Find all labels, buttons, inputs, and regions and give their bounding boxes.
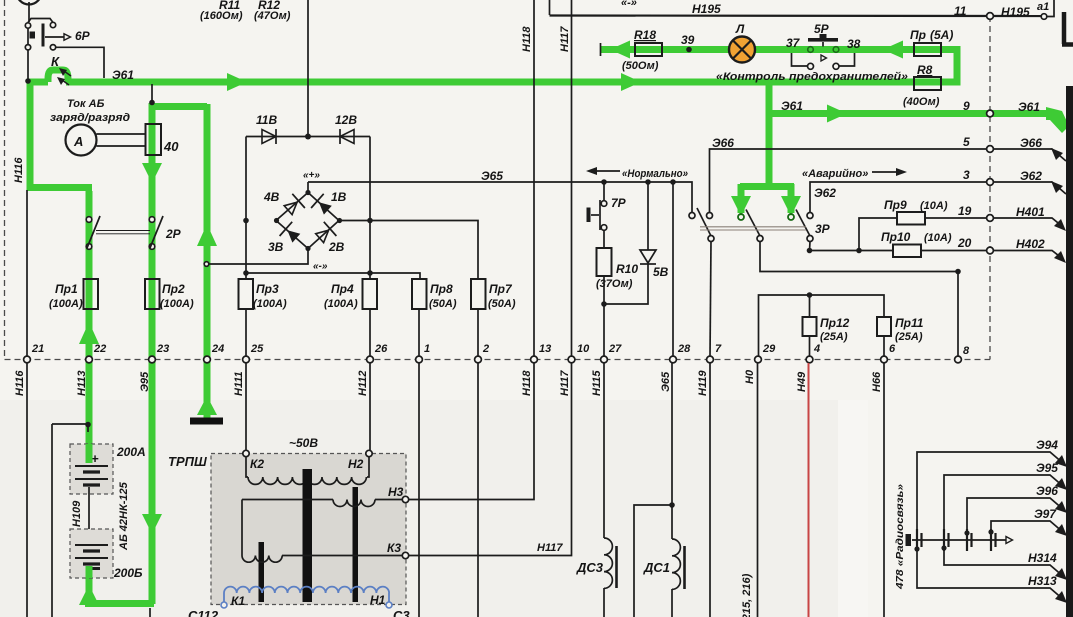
green arrow on Э61 at x=243 (227, 73, 247, 91)
svg-text:Ток АБ: Ток АБ (67, 98, 105, 110)
diode 3В (268, 222, 300, 254)
node 2 (475, 343, 490, 363)
transformer ТРПШ box (168, 436, 406, 605)
svg-text:39: 39 (681, 33, 695, 47)
svg-text:Пр9: Пр9 (884, 198, 907, 212)
wire Э62 (810, 182, 990, 213)
node 22 (76, 343, 106, 396)
svg-text:26: 26 (374, 343, 388, 355)
svg-text:Н3: Н3 (388, 485, 404, 499)
wire from instrument to 6Р (28, 2, 30, 22)
svg-text:28: 28 (677, 343, 691, 355)
green overlay inside battery top cell (86, 444, 93, 463)
wire Н118 vertical (533, 0, 535, 357)
transformer main core bar (303, 469, 313, 602)
connector pin pair 3 (967, 529, 972, 551)
green up arrow into battery minus (79, 585, 99, 605)
node 11 on Н195 (954, 4, 993, 19)
svg-text:R18: R18 (634, 28, 656, 42)
svg-text:«Контроль предохранителей»: «Контроль предохранителей» (716, 71, 908, 83)
svg-text:2: 2 (482, 343, 489, 355)
svg-text:2Р: 2Р (165, 227, 182, 241)
green down arrow to 3Р contact left (731, 196, 751, 216)
svg-text:200А: 200А (116, 445, 146, 459)
svg-text:Пр11: Пр11 (895, 316, 924, 330)
green arrow on Э61 branch at x=843 (827, 105, 847, 123)
svg-text:Н117: Н117 (559, 370, 571, 396)
diode 11В (256, 113, 277, 144)
terminal К3 (387, 541, 409, 559)
svg-text:R10: R10 (616, 262, 638, 276)
svg-text:7Р: 7Р (611, 196, 627, 210)
node 28 (660, 343, 691, 392)
svg-text:R8: R8 (917, 63, 933, 77)
wire Н66 node 6 down (883, 363, 885, 617)
svg-text:Пр10: Пр10 (881, 230, 911, 244)
connector pin pair 1 (917, 529, 922, 551)
shunt 40 (146, 124, 180, 155)
fuse Пр7 (471, 279, 516, 357)
svg-text:Э97: Э97 (1034, 507, 1057, 521)
right dashed panel border (989, 16, 991, 360)
fuse Пр9 (884, 198, 990, 225)
svg-text:Э95: Э95 (139, 371, 151, 392)
diode 4В (263, 190, 305, 215)
svg-text:9: 9 (963, 99, 970, 113)
svg-text:Э66: Э66 (1020, 136, 1042, 150)
terminal Н3 (388, 485, 409, 503)
svg-text:3: 3 (963, 168, 970, 182)
green arrow on Э61 at x=637 (621, 73, 641, 91)
node 27 (591, 343, 622, 396)
green down arrow on shunt wire (142, 163, 162, 183)
svg-text:23: 23 (156, 343, 169, 355)
svg-text:С3: С3 (393, 608, 410, 617)
fuse Пр11 (877, 316, 924, 357)
left dashed panel border (4, 0, 6, 360)
diode 2В (316, 222, 345, 254)
node 10 (559, 343, 590, 396)
svg-text:(100А): (100А) (160, 298, 194, 310)
svg-text:(100А): (100А) (324, 298, 358, 310)
wire Н117 node 10 down to К3 (409, 363, 572, 556)
adjacent frame corner top right (1062, 12, 1073, 45)
green arrow left near R18 (610, 41, 630, 59)
node 5 and wire Э66 right arrow (963, 135, 1066, 161)
svg-text:29: 29 (762, 343, 776, 355)
svg-text:Пр3: Пр3 (256, 282, 279, 296)
node 4 (796, 343, 820, 392)
svg-text:Н1: Н1 (370, 593, 386, 607)
svg-text:Пр12: Пр12 (820, 316, 850, 330)
green Э61 right edge hook (1046, 107, 1069, 133)
green down arrow on Э95 wire (142, 514, 162, 534)
wire Н116 below node 21 (26, 363, 28, 617)
node 24 (204, 343, 225, 363)
relay contact 6Р (25, 19, 90, 51)
svg-text:(37Ом): (37Ом) (596, 278, 633, 290)
svg-text:478 «Радиосвязь»: 478 «Радиосвязь» (895, 483, 906, 590)
svg-text:Э61: Э61 (781, 99, 803, 113)
fuse Пр2 (145, 279, 194, 310)
svg-text:(100А): (100А) (253, 298, 287, 310)
bus at у=220 right of bridge to Пр7 (339, 221, 478, 281)
svg-text:С112: С112 (188, 608, 219, 617)
svg-text:11: 11 (954, 4, 967, 18)
svg-text:1: 1 (424, 343, 430, 355)
lamp Л (729, 22, 755, 63)
svg-text:4В: 4В (263, 190, 280, 204)
wire node 2 down (477, 363, 479, 617)
node 29 (744, 343, 776, 384)
wire H116 from green corner down to node 21 (26, 190, 28, 357)
box corner top middle (549, 0, 551, 15)
wire Н115 node 27 down with choke ДС3 (576, 363, 617, 617)
svg-text:4: 4 (813, 343, 820, 355)
svg-text:3Р: 3Р (815, 222, 831, 236)
svg-text:Э65: Э65 (481, 169, 503, 183)
rectifier bridge arms (276, 193, 339, 249)
wire Н0 node 29 down (757, 363, 759, 617)
winding 3 К3 left leg (241, 500, 243, 556)
svg-text:Н2: Н2 (348, 457, 364, 471)
red wire Н49 node 4 down (808, 363, 810, 617)
switch 5Р (792, 22, 855, 69)
Аварийно label and arrow (802, 168, 907, 180)
green arrow left near fuse Пр(5А) (883, 41, 903, 59)
wire Э95 black continuation at bottom (149, 608, 151, 617)
svg-text:7: 7 (715, 343, 722, 355)
wire node 28 down with choke ДС1 (643, 363, 685, 617)
node 9 (963, 99, 1040, 117)
ground symbol (190, 418, 223, 425)
svg-text:1В: 1В (331, 190, 347, 204)
svg-text:Н115: Н115 (591, 370, 603, 396)
svg-text:и 215, 216): и 215, 216) (741, 573, 753, 617)
svg-text:Н195: Н195 (1001, 5, 1030, 19)
svg-text:Э95: Э95 (1036, 461, 1058, 475)
svg-text:Э62: Э62 (1020, 169, 1042, 183)
green up arrow on ground wire (197, 224, 217, 246)
svg-text:Н112: Н112 (357, 371, 369, 396)
svg-text:Н118: Н118 (521, 26, 533, 52)
svg-text:25: 25 (250, 343, 264, 355)
svg-text:Пр4: Пр4 (331, 282, 354, 296)
svg-text:27: 27 (608, 343, 622, 355)
diode 1В (311, 190, 347, 215)
svg-text:Н401: Н401 (1016, 205, 1045, 219)
wire from 3Р pole1 to node 7 (710, 242, 711, 358)
contactor К arrows (62, 71, 71, 85)
left branch wire to bridge (245, 137, 247, 281)
wire Н119 node 7 down (709, 363, 711, 617)
wire drop at х52 (51, 424, 53, 617)
svg-text:Н313: Н313 (1028, 574, 1057, 588)
svg-text:~50В: ~50В (289, 436, 318, 450)
node 25 (233, 343, 264, 396)
bridge top vertex wire to Э65 (307, 182, 309, 193)
fuse Пр4 (324, 279, 377, 357)
svg-text:«Нормально»: «Нормально» (622, 168, 688, 180)
svg-text:22: 22 (93, 343, 106, 355)
junction dot above bridge (305, 134, 311, 140)
svg-text:20: 20 (957, 236, 972, 250)
junction 6Р wire on Э61 (25, 78, 31, 84)
node 20 and wire Н402 right arrow (957, 236, 1066, 263)
svg-text:40: 40 (163, 139, 179, 154)
svg-text:Н119: Н119 (697, 370, 709, 396)
node 39 (686, 47, 692, 53)
svg-text:К: К (51, 54, 60, 69)
green down arrow to 3Р contact right (781, 196, 801, 216)
wire Н195 (550, 14, 1044, 17)
svg-text:Пр: Пр (910, 28, 926, 42)
winding 2 Н3 (242, 499, 333, 501)
svg-text:Н117: Н117 (537, 542, 563, 554)
wire Н109 between cells (88, 487, 90, 545)
node 1 (416, 343, 431, 363)
svg-text:Э61: Э61 (1018, 100, 1040, 114)
connector row dashed line (5, 359, 991, 361)
node 19 and wire Н401 right arrow (958, 204, 1066, 231)
svg-text:(10А): (10А) (920, 200, 948, 212)
svg-text:19: 19 (958, 204, 972, 218)
svg-text:«-»: «-» (621, 0, 637, 9)
svg-text:а1: а1 (1037, 1, 1049, 13)
terminal К2 (243, 450, 265, 471)
wire Э97 (988, 507, 1067, 536)
svg-text:Н195: Н195 (692, 2, 721, 16)
wire from 6Р right contact to Э61 (55, 47, 104, 78)
svg-text:Н49: Н49 (796, 371, 808, 392)
svg-text:200Б: 200Б (113, 566, 143, 580)
wire Э66 (710, 136, 991, 213)
wire from Э65 down to node 28 (672, 182, 674, 357)
svg-text:заряд/разряд: заряд/разряд (50, 112, 130, 124)
fuse Пр1 (49, 279, 98, 310)
node 13 (521, 343, 551, 396)
svg-text:Н111: Н111 (233, 371, 245, 396)
svg-text:Пр7: Пр7 (489, 282, 513, 296)
connector а1 on Н195 (1001, 0, 1054, 19)
svg-text:Н314: Н314 (1028, 551, 1057, 565)
node 26 (357, 343, 388, 396)
svg-text:(25А): (25А) (895, 331, 923, 343)
svg-text:ТРПШ: ТРПШ (168, 454, 207, 469)
svg-text:«-»: «-» (313, 261, 328, 272)
svg-text:(50Ом): (50Ом) (622, 60, 659, 72)
svg-text:3В: 3В (268, 240, 284, 254)
node 6 (871, 343, 896, 392)
svg-text:6: 6 (889, 343, 896, 355)
svg-text:К1: К1 (231, 594, 245, 608)
fuse Пр12 (803, 316, 850, 357)
svg-text:«+»: «+» (303, 170, 320, 181)
wire Э95 (944, 461, 1067, 534)
terminal Н2 (348, 450, 372, 471)
instrument circle top left (cut) (17, 0, 42, 5)
right branch wire to bridge (369, 137, 371, 281)
svg-text:Н402: Н402 (1016, 237, 1045, 251)
svg-text:А: А (73, 134, 83, 149)
node 21 (14, 343, 44, 396)
svg-text:Н113: Н113 (76, 371, 88, 396)
svg-text:38: 38 (847, 37, 861, 51)
node 3 and wire Э62 right arrow (963, 168, 1066, 194)
wire Э96 (964, 484, 1067, 536)
wire node 1 down (418, 363, 420, 617)
winding 1 К2-Н2 (246, 457, 369, 478)
switch 3Р group (689, 208, 831, 242)
svg-text:Н0: Н0 (744, 369, 756, 384)
junction dot at shunt branch (149, 100, 155, 106)
svg-text:К3: К3 (387, 541, 401, 555)
svg-text:«Аварийно»: «Аварийно» (802, 168, 868, 180)
svg-text:(50А): (50А) (429, 298, 457, 310)
svg-text:Н116: Н116 (13, 157, 25, 183)
svg-text:5В: 5В (653, 265, 669, 279)
svg-text:(160Ом): (160Ом) (200, 10, 243, 22)
pushbutton 7Р (587, 196, 627, 230)
resistor R8 (903, 63, 941, 108)
svg-text:6Р: 6Р (75, 29, 91, 43)
diode 12В (335, 113, 357, 144)
svg-text:(5А): (5А) (930, 28, 953, 42)
svg-text:Э96: Э96 (1036, 484, 1058, 498)
wire from 3Р pole2 down and right to node 8 drop (760, 242, 958, 358)
fuse Пр3 (239, 279, 287, 357)
svg-text:ДС3: ДС3 (576, 560, 604, 575)
fuse Пр8 (412, 279, 457, 357)
svg-text:ДС1: ДС1 (643, 560, 670, 575)
svg-text:Н117: Н117 (559, 26, 571, 52)
lower bus y=273 to Пр8 (246, 273, 420, 280)
fuse Пр10 (881, 230, 990, 257)
diode 5В (604, 185, 669, 305)
ammeter А (66, 125, 97, 156)
svg-text:8: 8 (963, 345, 970, 357)
svg-text:К2: К2 (250, 457, 264, 471)
wire node 26 to Н2 (369, 363, 371, 450)
branch from ДС1 wire to left drop (634, 505, 672, 617)
svg-text:(25А): (25А) (820, 331, 848, 343)
battery cell 200А box (70, 444, 146, 494)
wire R10 bottom to node 27 (603, 276, 605, 357)
wire Н314 (941, 545, 1067, 580)
node 7 (697, 343, 722, 396)
wire from 6Р left contact down to Э61 (27, 50, 29, 79)
resistor R10 (596, 248, 638, 290)
riser to Пр9 (859, 218, 897, 251)
svg-text:2В: 2В (328, 240, 345, 254)
wire Н118 node 13 down to Н3 (409, 363, 534, 500)
terminal end of R18 wire (600, 43, 602, 56)
wire Н313 (914, 546, 1067, 603)
black stub from Э61 down to shunt junction (151, 84, 153, 101)
contact 2Р double pole (86, 216, 181, 249)
svg-text:12В: 12В (335, 113, 357, 127)
battery cell 200Б box (70, 529, 143, 580)
svg-text:(40Ом): (40Ом) (903, 96, 940, 108)
svg-text:Пр1: Пр1 (55, 282, 78, 296)
ammeter leads (97, 134, 147, 146)
green overlay inside battery bottom cell (86, 566, 93, 578)
wire Н117 vertical (571, 0, 573, 357)
node 8 (955, 345, 970, 363)
blue winding К1-Н1 (221, 587, 392, 608)
node 23 (139, 343, 169, 392)
svg-text:5Р: 5Р (814, 22, 830, 36)
svg-text:Э65: Э65 (660, 371, 672, 392)
svg-text:Пр2: Пр2 (162, 282, 185, 296)
transformer core bar 3 (259, 542, 265, 602)
junction dots on Э65 (601, 179, 607, 185)
wire from R11/R12 down (307, 0, 309, 136)
svg-text:Н109: Н109 (71, 500, 83, 527)
wire from battery plus to Х52 drop (52, 424, 88, 432)
svg-text:Н118: Н118 (521, 370, 533, 396)
svg-text:(47Ом): (47Ом) (254, 10, 291, 22)
green up arrow on battery wire Н113 (79, 322, 99, 344)
wire top bus 11В/12В (246, 136, 370, 138)
svg-text:(100А): (100А) (49, 298, 83, 310)
resistor R18 (622, 28, 662, 72)
Нормально arrow and label (586, 167, 688, 180)
svg-text:24: 24 (211, 343, 224, 355)
fuse Пр (5А) (910, 28, 953, 56)
svg-text:11В: 11В (256, 113, 277, 127)
connector pin pair 2 (944, 529, 949, 551)
svg-text:21: 21 (31, 343, 44, 355)
svg-text:37: 37 (786, 36, 801, 50)
svg-text:(50А): (50А) (488, 298, 516, 310)
wire Э94 (917, 438, 1067, 534)
svg-text:Л: Л (735, 22, 745, 36)
svg-text:13: 13 (539, 343, 551, 355)
svg-text:Пр8: Пр8 (430, 282, 453, 296)
svg-text:5: 5 (963, 135, 970, 149)
svg-text:Э66: Э66 (712, 136, 734, 150)
svg-text:10: 10 (577, 343, 590, 355)
svg-text:Н66: Н66 (871, 371, 883, 392)
wire 7Р to R10 (603, 185, 605, 249)
wire node 25 to К2 (245, 363, 247, 450)
transformer core bar 2 (353, 487, 359, 602)
svg-text:Э94: Э94 (1036, 438, 1058, 452)
svg-text:(10А): (10А) (924, 232, 952, 244)
svg-text:Э61: Э61 (112, 68, 134, 82)
bridge minus wire to ground trace (208, 249, 308, 265)
connector 478 bus (906, 534, 1013, 546)
svg-text:Э62: Э62 (814, 186, 836, 200)
bracket over fuses Пр12 Пр11 from node 29 (759, 295, 885, 357)
wire Э65 horizontal (308, 182, 692, 213)
svg-text:АБ 42НК-125: АБ 42НК-125 (118, 481, 130, 551)
connector pin pair 4 (991, 529, 996, 551)
svg-text:Н116: Н116 (14, 370, 26, 396)
right page edge black bar (1066, 86, 1073, 617)
green up arrow on ground wire lower (197, 396, 217, 415)
wire from 3Р pole3 to fuse Пр10 (810, 242, 894, 251)
